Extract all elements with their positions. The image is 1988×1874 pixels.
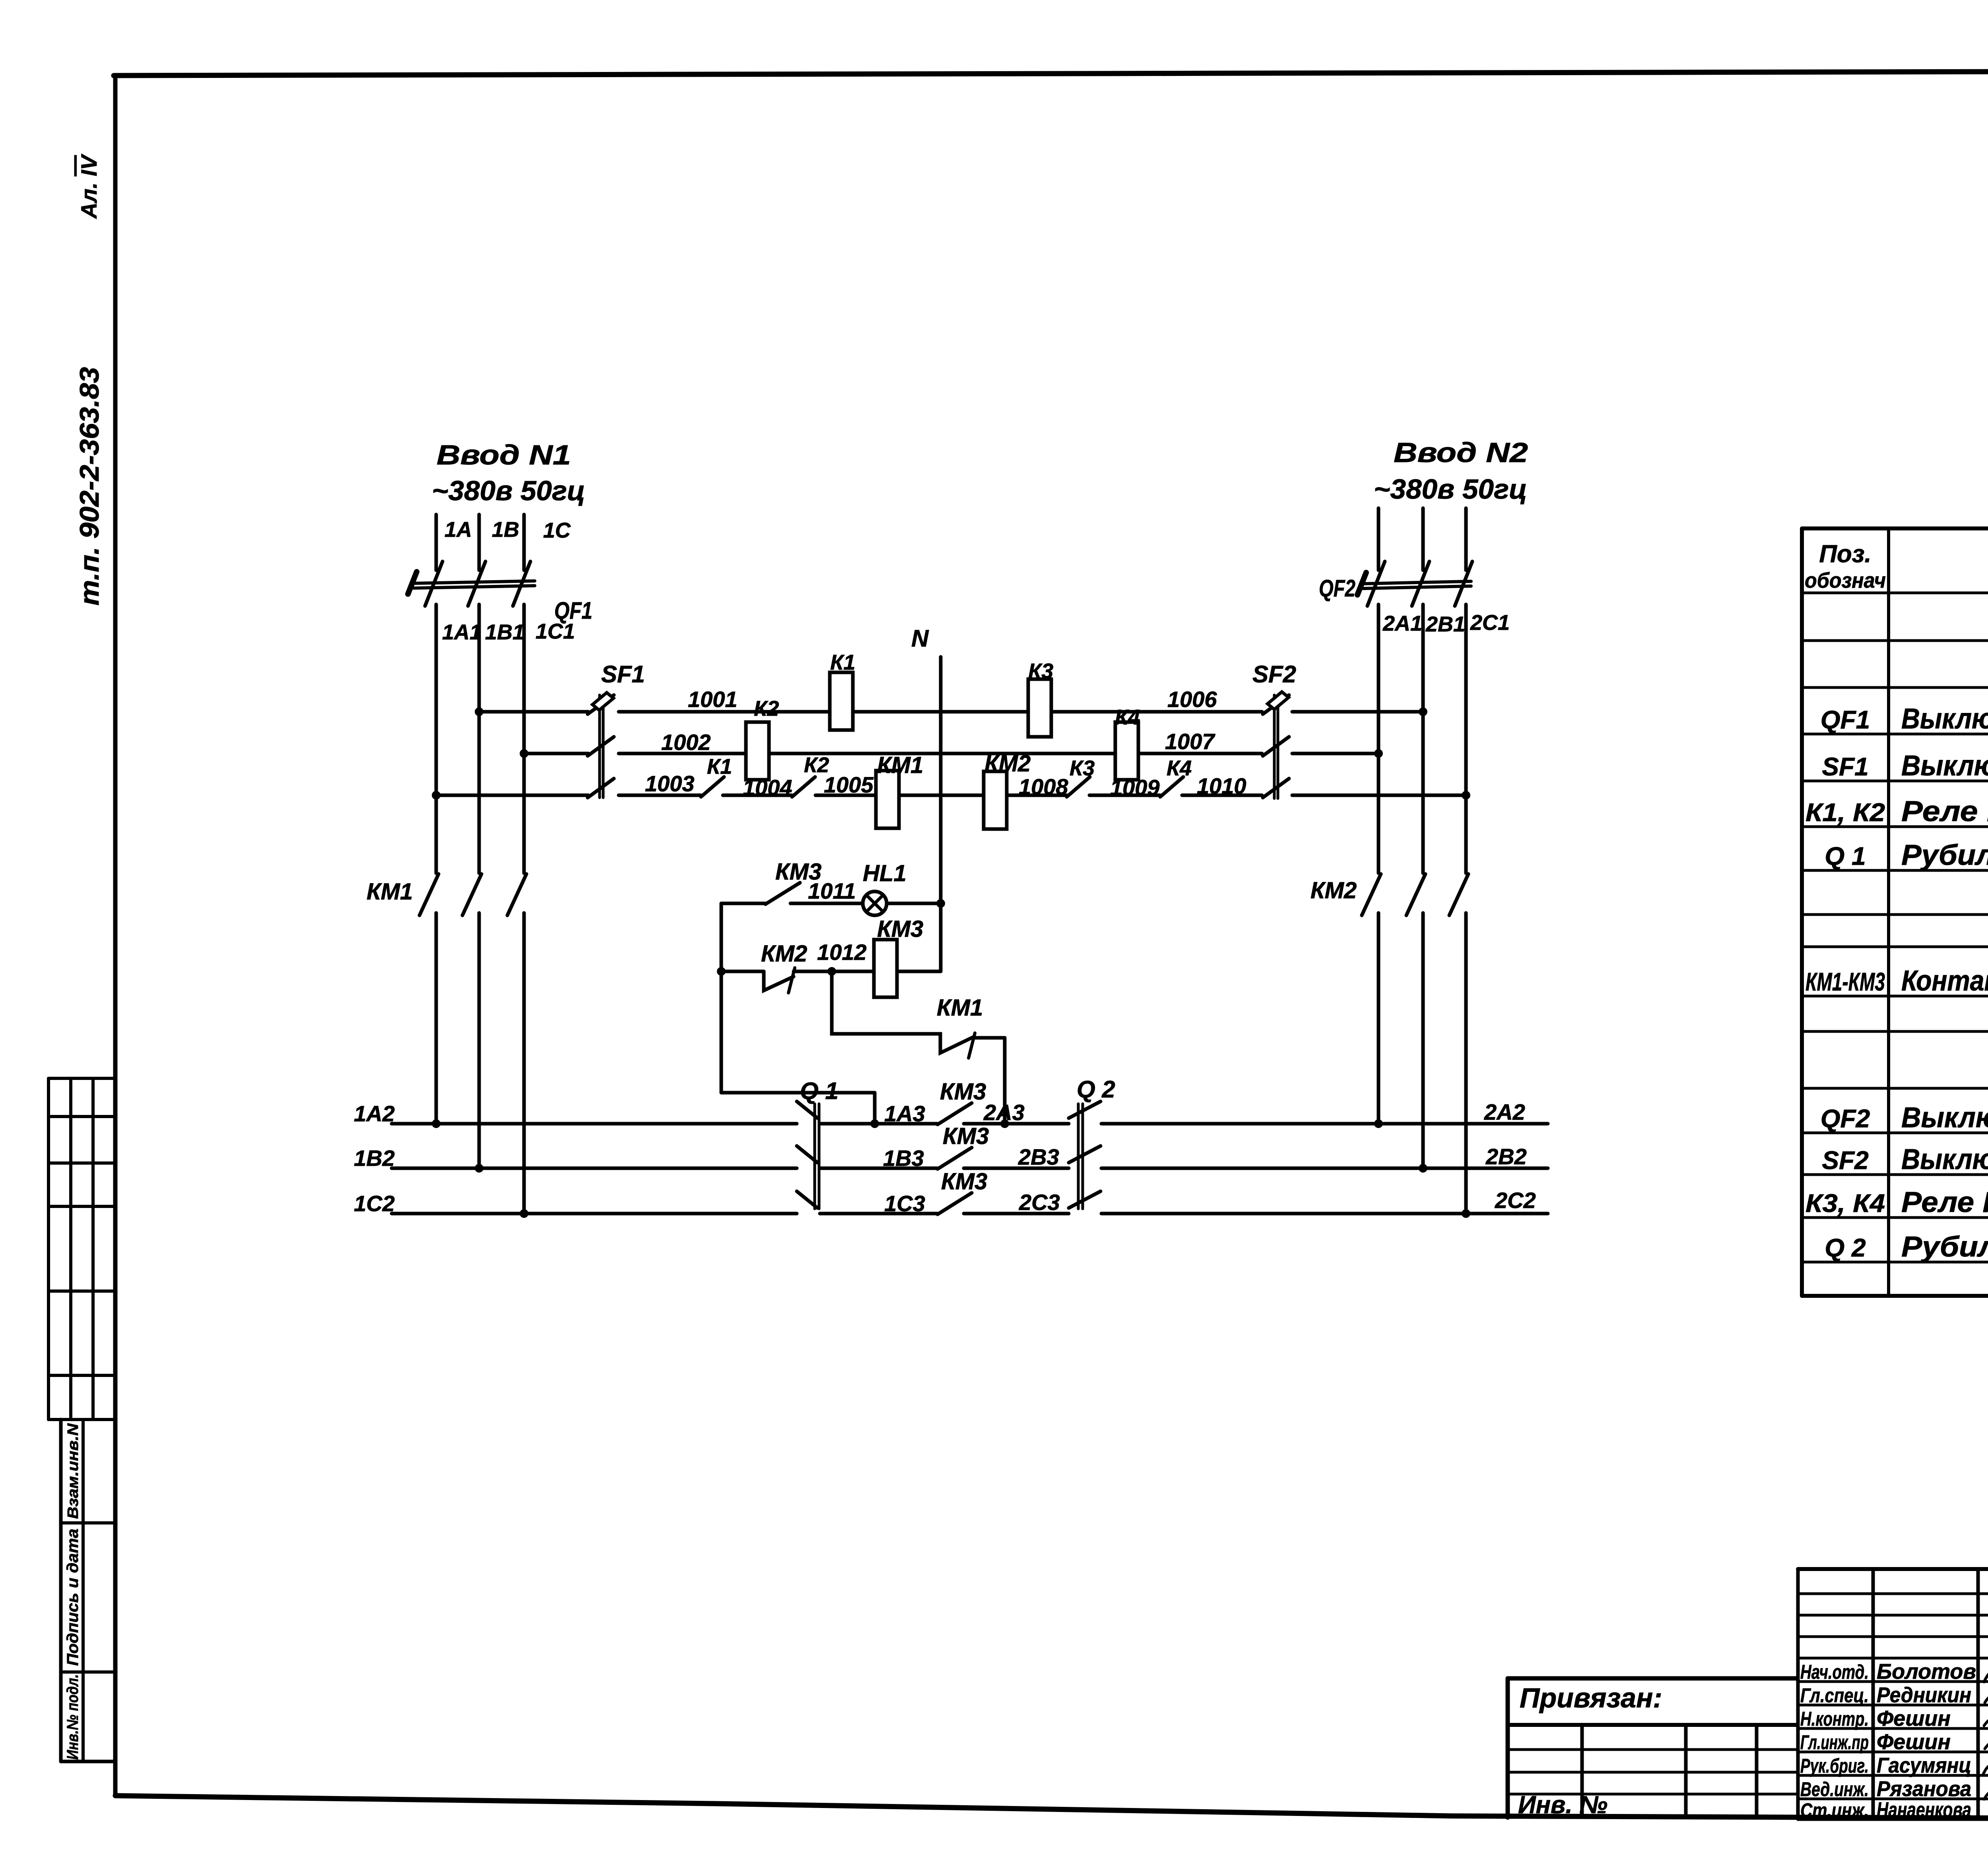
svg-text:КМ2: КМ2 bbox=[1310, 878, 1357, 903]
svg-text:Ввод N1: Ввод N1 bbox=[437, 439, 571, 470]
svg-text:QF2: QF2 bbox=[1319, 575, 1355, 602]
svg-text:1С3: 1С3 bbox=[884, 1191, 925, 1216]
svg-text:Рубильник Р34 УЗ пп: Рубильник Р34 УЗ пп bbox=[1901, 1231, 1988, 1263]
svg-text:1011: 1011 bbox=[808, 878, 856, 903]
svg-text:2А1: 2А1 bbox=[1382, 612, 1422, 635]
svg-text:1С2: 1С2 bbox=[354, 1191, 395, 1216]
svg-text:1А: 1А bbox=[445, 518, 472, 542]
svg-text:КМ1: КМ1 bbox=[367, 879, 413, 905]
svg-text:Q 1: Q 1 bbox=[800, 1078, 839, 1104]
svg-text:Редникин: Редникин bbox=[1877, 1683, 1971, 1707]
svg-text:КМ3: КМ3 bbox=[941, 1169, 987, 1194]
svg-text:Выключатель АП50-3МТ УЗIр 2,5А: Выключатель АП50-3МТ УЗIр 2,5А bbox=[1901, 1144, 1988, 1175]
svg-text:К2: К2 bbox=[754, 697, 779, 720]
svg-text:КМ3: КМ3 bbox=[940, 1079, 986, 1105]
svg-text:К3: К3 bbox=[1028, 659, 1053, 683]
svg-text:К3, К4: К3, К4 bbox=[1806, 1189, 1885, 1218]
svg-text:SF1: SF1 bbox=[601, 661, 645, 687]
svg-text:Болотов: Болотов bbox=[1877, 1660, 1976, 1684]
svg-text:К4: К4 bbox=[1167, 756, 1192, 780]
svg-text:SF2: SF2 bbox=[1822, 1146, 1868, 1175]
svg-text:Контактор КТ 6033УЗ v~380в вк: Контактор КТ 6033УЗ v~380в вк2з2р bbox=[1901, 965, 1988, 997]
svg-text:1009: 1009 bbox=[1110, 775, 1160, 800]
svg-text:КМ2: КМ2 bbox=[761, 941, 807, 967]
svg-text:Подпись и дата: Подпись и дата bbox=[64, 1529, 82, 1666]
svg-text:т.п. 902-2-363.83: т.п. 902-2-363.83 bbox=[74, 367, 105, 606]
svg-text:Рубильник Р34 УЗ пп: Рубильник Р34 УЗ пп bbox=[1901, 839, 1988, 871]
svg-text:Привязан:: Привязан: bbox=[1520, 1682, 1662, 1713]
svg-text:1А2: 1А2 bbox=[354, 1101, 395, 1126]
svg-text:Рязанова: Рязанова bbox=[1877, 1777, 1971, 1801]
svg-text:QF1: QF1 bbox=[1821, 705, 1870, 734]
svg-text:Гл.инж.пр: Гл.инж.пр bbox=[1800, 1731, 1869, 1754]
svg-text:2В1: 2В1 bbox=[1425, 612, 1465, 636]
svg-text:1С1: 1С1 bbox=[536, 619, 575, 643]
svg-text:Ал. IV: Ал. IV bbox=[76, 153, 101, 219]
svg-text:1012: 1012 bbox=[817, 940, 867, 965]
svg-text:2А3: 2А3 bbox=[983, 1100, 1025, 1125]
svg-text:Вед.инж.: Вед.инж. bbox=[1800, 1778, 1869, 1800]
svg-text:Поз.: Поз. bbox=[1819, 540, 1871, 568]
svg-text:1010: 1010 bbox=[1197, 773, 1246, 798]
svg-text:Взам.инв.N: Взам.инв.N bbox=[65, 1423, 82, 1519]
svg-text:QF2: QF2 bbox=[1821, 1104, 1870, 1133]
svg-text:Гл.спец.: Гл.спец. bbox=[1800, 1684, 1869, 1707]
svg-text:Ввод N2: Ввод N2 bbox=[1394, 437, 1528, 468]
svg-text:1004: 1004 bbox=[743, 775, 792, 800]
svg-text:1001: 1001 bbox=[688, 687, 738, 712]
svg-text:Реле ПЭ21-7УЗ v ~ 220В: Реле ПЭ21-7УЗ v ~ 220В bbox=[1901, 1187, 1988, 1218]
svg-text:Выключатель А3734БУЗ Iр250А п: Выключатель А3734БУЗ Iр250А пп bbox=[1901, 1102, 1988, 1134]
svg-text:~380в 50гц: ~380в 50гц bbox=[432, 475, 585, 506]
svg-text:~380в 50гц: ~380в 50гц bbox=[1374, 474, 1527, 505]
svg-text:1007: 1007 bbox=[1165, 729, 1215, 754]
svg-text:2С1: 2С1 bbox=[1470, 611, 1510, 635]
svg-text:Нанаенкова: Нанаенкова bbox=[1877, 1798, 1971, 1822]
svg-text:1002: 1002 bbox=[661, 730, 711, 755]
svg-text:К2: К2 bbox=[804, 753, 829, 777]
svg-text:2А2: 2А2 bbox=[1484, 1099, 1525, 1124]
svg-text:КМ2: КМ2 bbox=[984, 751, 1031, 777]
svg-text:КМ3: КМ3 bbox=[943, 1123, 989, 1149]
svg-text:HL1: HL1 bbox=[863, 860, 907, 886]
svg-text:1А3: 1А3 bbox=[884, 1101, 925, 1126]
svg-text:обознач: обознач bbox=[1805, 569, 1886, 592]
svg-text:Рук.бриг.: Рук.бриг. bbox=[1800, 1755, 1869, 1777]
svg-text:Ст.инж.: Ст.инж. bbox=[1800, 1799, 1869, 1822]
svg-text:Гасумянц: Гасумянц bbox=[1877, 1754, 1971, 1777]
svg-text:1003: 1003 bbox=[645, 771, 695, 796]
svg-text:SF2: SF2 bbox=[1252, 661, 1296, 687]
svg-text:Выключатель А3734БУЗ Iр 250А п: Выключатель А3734БУЗ Iр 250А пп bbox=[1901, 703, 1988, 735]
svg-text:Инв.№ подл.: Инв.№ подл. bbox=[64, 1674, 82, 1760]
svg-text:2С3: 2С3 bbox=[1019, 1190, 1060, 1215]
svg-text:Фешин: Фешин bbox=[1877, 1707, 1951, 1730]
svg-text:Реле ПЭ21-7УЗ v ~ 220В: Реле ПЭ21-7УЗ v ~ 220В bbox=[1901, 796, 1988, 827]
svg-text:Фешин: Фешин bbox=[1877, 1730, 1951, 1754]
svg-text:К1, К2: К1, К2 bbox=[1806, 798, 1885, 827]
svg-text:КМ1: КМ1 bbox=[877, 752, 923, 778]
svg-text:КМ1: КМ1 bbox=[937, 995, 983, 1021]
svg-text:1В3: 1В3 bbox=[883, 1146, 924, 1171]
svg-text:Q 1: Q 1 bbox=[1825, 842, 1866, 870]
svg-text:1008: 1008 bbox=[1019, 774, 1068, 799]
svg-text:2В3: 2В3 bbox=[1018, 1144, 1059, 1169]
svg-text:К1: К1 bbox=[707, 755, 732, 779]
svg-text:К4: К4 bbox=[1115, 705, 1140, 729]
svg-text:Н.контр.: Н.контр. bbox=[1800, 1708, 1869, 1730]
svg-text:1В2: 1В2 bbox=[354, 1146, 395, 1171]
svg-text:К3: К3 bbox=[1070, 756, 1095, 780]
svg-text:Q 2: Q 2 bbox=[1077, 1076, 1115, 1103]
svg-text:1В1: 1В1 bbox=[485, 620, 524, 644]
svg-text:КМ3: КМ3 bbox=[877, 916, 923, 942]
svg-text:1006: 1006 bbox=[1167, 687, 1217, 712]
svg-text:К1: К1 bbox=[830, 651, 855, 674]
svg-text:1В: 1В bbox=[492, 518, 519, 542]
svg-text:Инв. №: Инв. № bbox=[1518, 1791, 1607, 1819]
svg-text:N: N bbox=[911, 625, 929, 652]
svg-text:SF1: SF1 bbox=[1822, 752, 1868, 781]
svg-text:1С: 1С bbox=[543, 519, 571, 542]
svg-text:Нач.отд.: Нач.отд. bbox=[1800, 1661, 1869, 1683]
svg-text:КМ1-КМ3: КМ1-КМ3 bbox=[1806, 967, 1885, 996]
svg-text:Q 2: Q 2 bbox=[1825, 1233, 1866, 1262]
svg-text:2В2: 2В2 bbox=[1485, 1144, 1527, 1169]
svg-text:Выключатель АП50-3МТУЗ Iр 2,5А: Выключатель АП50-3МТУЗ Iр 2,5А bbox=[1901, 750, 1988, 782]
svg-text:1А1: 1А1 bbox=[442, 620, 481, 644]
svg-text:1005: 1005 bbox=[824, 772, 874, 797]
svg-text:2С2: 2С2 bbox=[1495, 1188, 1536, 1213]
